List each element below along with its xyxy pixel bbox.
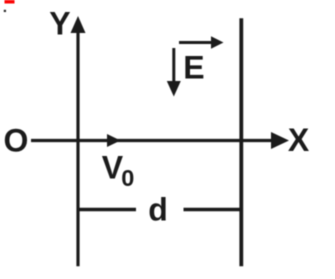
svg-text:O: O bbox=[4, 122, 29, 158]
svg-text:X: X bbox=[288, 122, 310, 158]
svg-text:0: 0 bbox=[121, 165, 134, 191]
svg-text:Y: Y bbox=[49, 5, 70, 41]
svg-text:d: d bbox=[148, 192, 168, 228]
svg-text:E: E bbox=[183, 49, 204, 85]
